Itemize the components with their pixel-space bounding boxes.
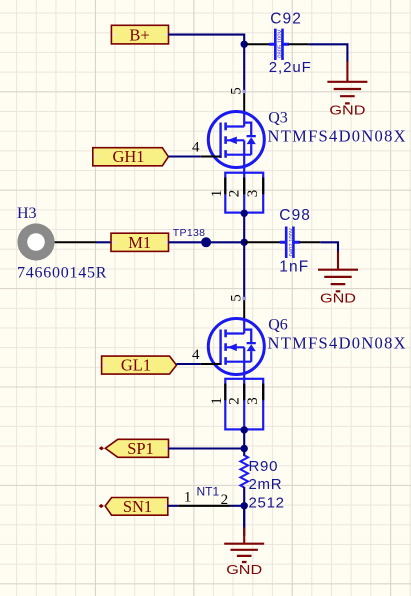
- svg-text:1: 1: [209, 397, 225, 405]
- port SN1: [99, 497, 168, 516]
- svg-text:C98: C98: [279, 207, 311, 224]
- svg-text:0402 100V: 0402 100V: [289, 228, 295, 256]
- ground GND2: [318, 251, 358, 305]
- Q3 source pins 1-2-3 box: [209, 168, 263, 213]
- svg-text:C92: C92: [270, 10, 302, 27]
- svg-text:TP138: TP138: [173, 227, 205, 239]
- transistor Q3: [208, 111, 264, 168]
- Q3 gate pin, number 4: [192, 139, 221, 156]
- wire GL1 to Q6 gate: [177, 363, 201, 365]
- svg-text:SN1: SN1: [123, 497, 152, 516]
- net tie NT1: [178, 485, 230, 508]
- port B+: [111, 25, 168, 44]
- svg-text:746600145R: 746600145R: [17, 265, 107, 282]
- wire GH1 to Q3 gate: [168, 155, 200, 157]
- junction node SN1 / R90 / GND: [241, 502, 248, 509]
- svg-text:Q6: Q6: [268, 317, 288, 334]
- svg-text:3: 3: [245, 190, 261, 198]
- wire M1 to main node: [169, 241, 245, 243]
- wire SP1 to node: [169, 447, 245, 449]
- svg-text:GL1: GL1: [121, 356, 151, 375]
- Q6 source pins 1-2-3 box: [209, 375, 263, 430]
- svg-text:2512: 2512: [249, 494, 285, 511]
- svg-text:Q3: Q3: [268, 110, 288, 127]
- svg-text:3: 3: [245, 397, 261, 405]
- svg-text:0805 100V: 0805 100V: [278, 30, 284, 58]
- Q6 drain pin, number 5: [229, 294, 246, 319]
- wire C92 to GND1: [309, 44, 348, 62]
- wire B+ to Q3 drain node: [169, 35, 245, 92]
- svg-text:2: 2: [221, 492, 229, 508]
- junction node M1: [241, 239, 248, 246]
- svg-text:2,2uF: 2,2uF: [269, 59, 312, 76]
- svg-text:2: 2: [226, 190, 242, 198]
- capacitor C92: [269, 29, 289, 60]
- port M1: [111, 233, 169, 252]
- capacitor C98 pin 1: [244, 241, 280, 243]
- wire H3 to M1: [96, 241, 111, 243]
- svg-text:1nF: 1nF: [279, 259, 309, 276]
- svg-text:NT1: NT1: [197, 485, 220, 499]
- ground GND1: [327, 61, 367, 118]
- capacitor C98 pin 2: [299, 241, 320, 243]
- port GL1: [102, 356, 177, 375]
- junction node Q6 source: [241, 426, 248, 433]
- H3 pin: [55, 241, 96, 243]
- svg-text:R90: R90: [249, 458, 279, 475]
- svg-text:NTMFS4D0N08X: NTMFS4D0N08X: [268, 127, 407, 146]
- wire R90 to SN1 node: [243, 487, 245, 536]
- Q3 drain pin, number 5: [229, 87, 246, 112]
- svg-text:B+: B+: [129, 25, 149, 44]
- wire Q6 source to SP1 node: [243, 429, 245, 456]
- wire NT1 to node: [231, 505, 245, 507]
- junction node Q3 source: [241, 210, 248, 217]
- capacitor C92 pin 1: [246, 43, 270, 45]
- svg-text:1: 1: [209, 190, 225, 198]
- transistor Q6: [208, 318, 264, 375]
- capacitor C92 pin 2: [289, 43, 309, 45]
- wire M1 node to Q6 drain: [243, 242, 245, 298]
- svg-text:2mR: 2mR: [249, 476, 283, 493]
- svg-text:4: 4: [192, 347, 200, 363]
- mounting hole H3: [17, 223, 54, 260]
- svg-text:5: 5: [229, 87, 245, 95]
- svg-text:H3: H3: [17, 205, 37, 222]
- junction node SP1 / R90: [241, 445, 248, 452]
- wire SN1 to net tie: [168, 505, 178, 507]
- svg-text:2: 2: [226, 397, 242, 405]
- svg-text:NTMFS4D0N08X: NTMFS4D0N08X: [268, 334, 407, 353]
- svg-text:M1: M1: [128, 233, 151, 252]
- wire C98 to GND2: [320, 242, 338, 252]
- capacitor C98: [280, 227, 300, 259]
- test point TP138: [201, 237, 211, 247]
- port GH1: [93, 147, 169, 166]
- port SP1: [99, 439, 169, 458]
- svg-text:1: 1: [184, 490, 192, 506]
- Q6 gate pin, number 4: [192, 347, 221, 364]
- ground GND3: [224, 506, 264, 577]
- junction node B+ / C92: [241, 41, 248, 48]
- svg-text:GH1: GH1: [112, 147, 144, 166]
- svg-text:4: 4: [192, 139, 200, 155]
- resistor R90: [240, 455, 248, 487]
- wire Q3 source to M1 node: [243, 213, 245, 243]
- svg-text:5: 5: [229, 294, 245, 302]
- svg-text:SP1: SP1: [127, 439, 154, 458]
